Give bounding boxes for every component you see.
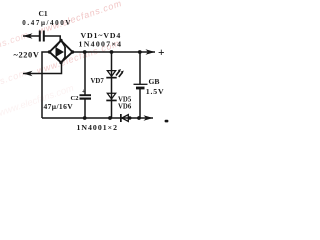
svg-text:1.5V: 1.5V [146, 87, 165, 96]
svg-text:ans.com: ans.com [0, 68, 28, 90]
battery GB [134, 77, 165, 96]
wire positive rail [73, 51, 156, 53]
svg-text:C1: C1 [39, 9, 48, 18]
arrow negative output [144, 115, 154, 121]
node junction dots on bottom rail [83, 116, 141, 120]
watermark (decorative) [0, 0, 123, 119]
svg-text:www.elecfans.com: www.elecfans.com [0, 83, 75, 119]
svg-text:1N4001×2: 1N4001×2 [77, 123, 118, 132]
wire C1 to bridge elbow [44, 36, 60, 42]
svg-text:VD7: VD7 [91, 78, 105, 85]
svg-text:+: + [82, 88, 86, 95]
arrow positive output [146, 49, 156, 55]
svg-text:~220V: ~220V [14, 51, 40, 60]
svg-text:47μ/16V: 47μ/16V [44, 102, 74, 111]
capacitor C1 [22, 9, 72, 42]
bridge rectifier VD1~VD4 [50, 41, 73, 63]
wire top AC line [23, 35, 40, 37]
LED light arrow [116, 71, 122, 77]
wire AC2 bottom line [23, 62, 62, 74]
svg-text:ans.com: ans.com [0, 30, 30, 52]
svg-text:+: + [158, 47, 165, 59]
wire bottom rail [42, 117, 153, 119]
wire VD7 VD5 branch vertical [111, 52, 113, 118]
svg-text:GB: GB [149, 77, 160, 86]
svg-text:1N4007×4: 1N4007×4 [79, 39, 123, 48]
svg-text:VD6: VD6 [118, 104, 132, 111]
wire battery branch vertical [139, 52, 141, 84]
diode VD5 [106, 93, 116, 101]
svg-text:VD5: VD5 [118, 97, 132, 104]
node junction dots on positive rail [83, 50, 142, 54]
arrow AC input top [23, 33, 33, 39]
arrow AC input bottom [23, 71, 33, 77]
diode VD7 LED [106, 71, 116, 79]
diode VD6 on bottom rail [120, 114, 128, 122]
label minus [165, 120, 169, 123]
capacitor C2 [44, 88, 92, 111]
wire C2 branch vertical [84, 52, 86, 95]
wire DC minus from bridge left vertex down to bottom rail [42, 52, 50, 118]
svg-text:0.47μ/400V: 0.47μ/400V [22, 19, 72, 27]
